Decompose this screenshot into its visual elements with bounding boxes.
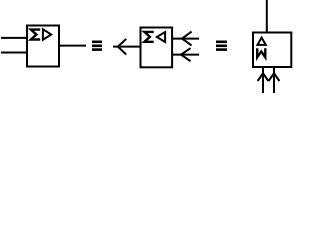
sigma glyph of U2 bbox=[144, 32, 153, 42]
equivalence sign 1 bbox=[92, 42, 102, 50]
wire input 2 of summer U1 bbox=[1, 52, 28, 54]
sigma glyph of U1 bbox=[31, 30, 40, 40]
amp triangle (left-pointing) of U2 bbox=[157, 32, 165, 42]
arrowhead input 2 of U2 bbox=[181, 48, 191, 61]
wire input 1 of summer U1 bbox=[1, 37, 28, 39]
amp triangle (right-pointing) of U1 bbox=[43, 29, 51, 40]
arrowhead input 1 of U2 bbox=[182, 32, 192, 46]
summer block U2 (sigma-amp, inputs right) bbox=[141, 28, 173, 68]
arrowhead input 2 of U3 bbox=[269, 73, 280, 81]
wire input 2 of U2 bbox=[173, 54, 200, 56]
wire input 2 of U3 bbox=[273, 67, 275, 93]
wire output of U1 bbox=[59, 45, 86, 47]
wire input 1 of U2 bbox=[173, 38, 200, 40]
sigma glyph (rotated 90deg CCW) of U3 bbox=[257, 48, 265, 57]
wire output of U2 (leftward) bbox=[113, 46, 140, 48]
amp triangle (up-pointing) of U3 bbox=[257, 38, 265, 45]
summer block U1 (sigma-amp, inputs left) bbox=[27, 26, 59, 67]
wire input 1 of U3 bbox=[262, 67, 264, 93]
arrowhead output of U2 bbox=[118, 39, 126, 55]
arrowhead input 1 of U3 bbox=[258, 73, 269, 81]
wire output of U3 (upward) bbox=[266, 0, 268, 33]
equivalence sign 2 bbox=[216, 42, 227, 50]
summer block U3 (sigma-amp rotated, inputs bottom) bbox=[253, 33, 291, 68]
